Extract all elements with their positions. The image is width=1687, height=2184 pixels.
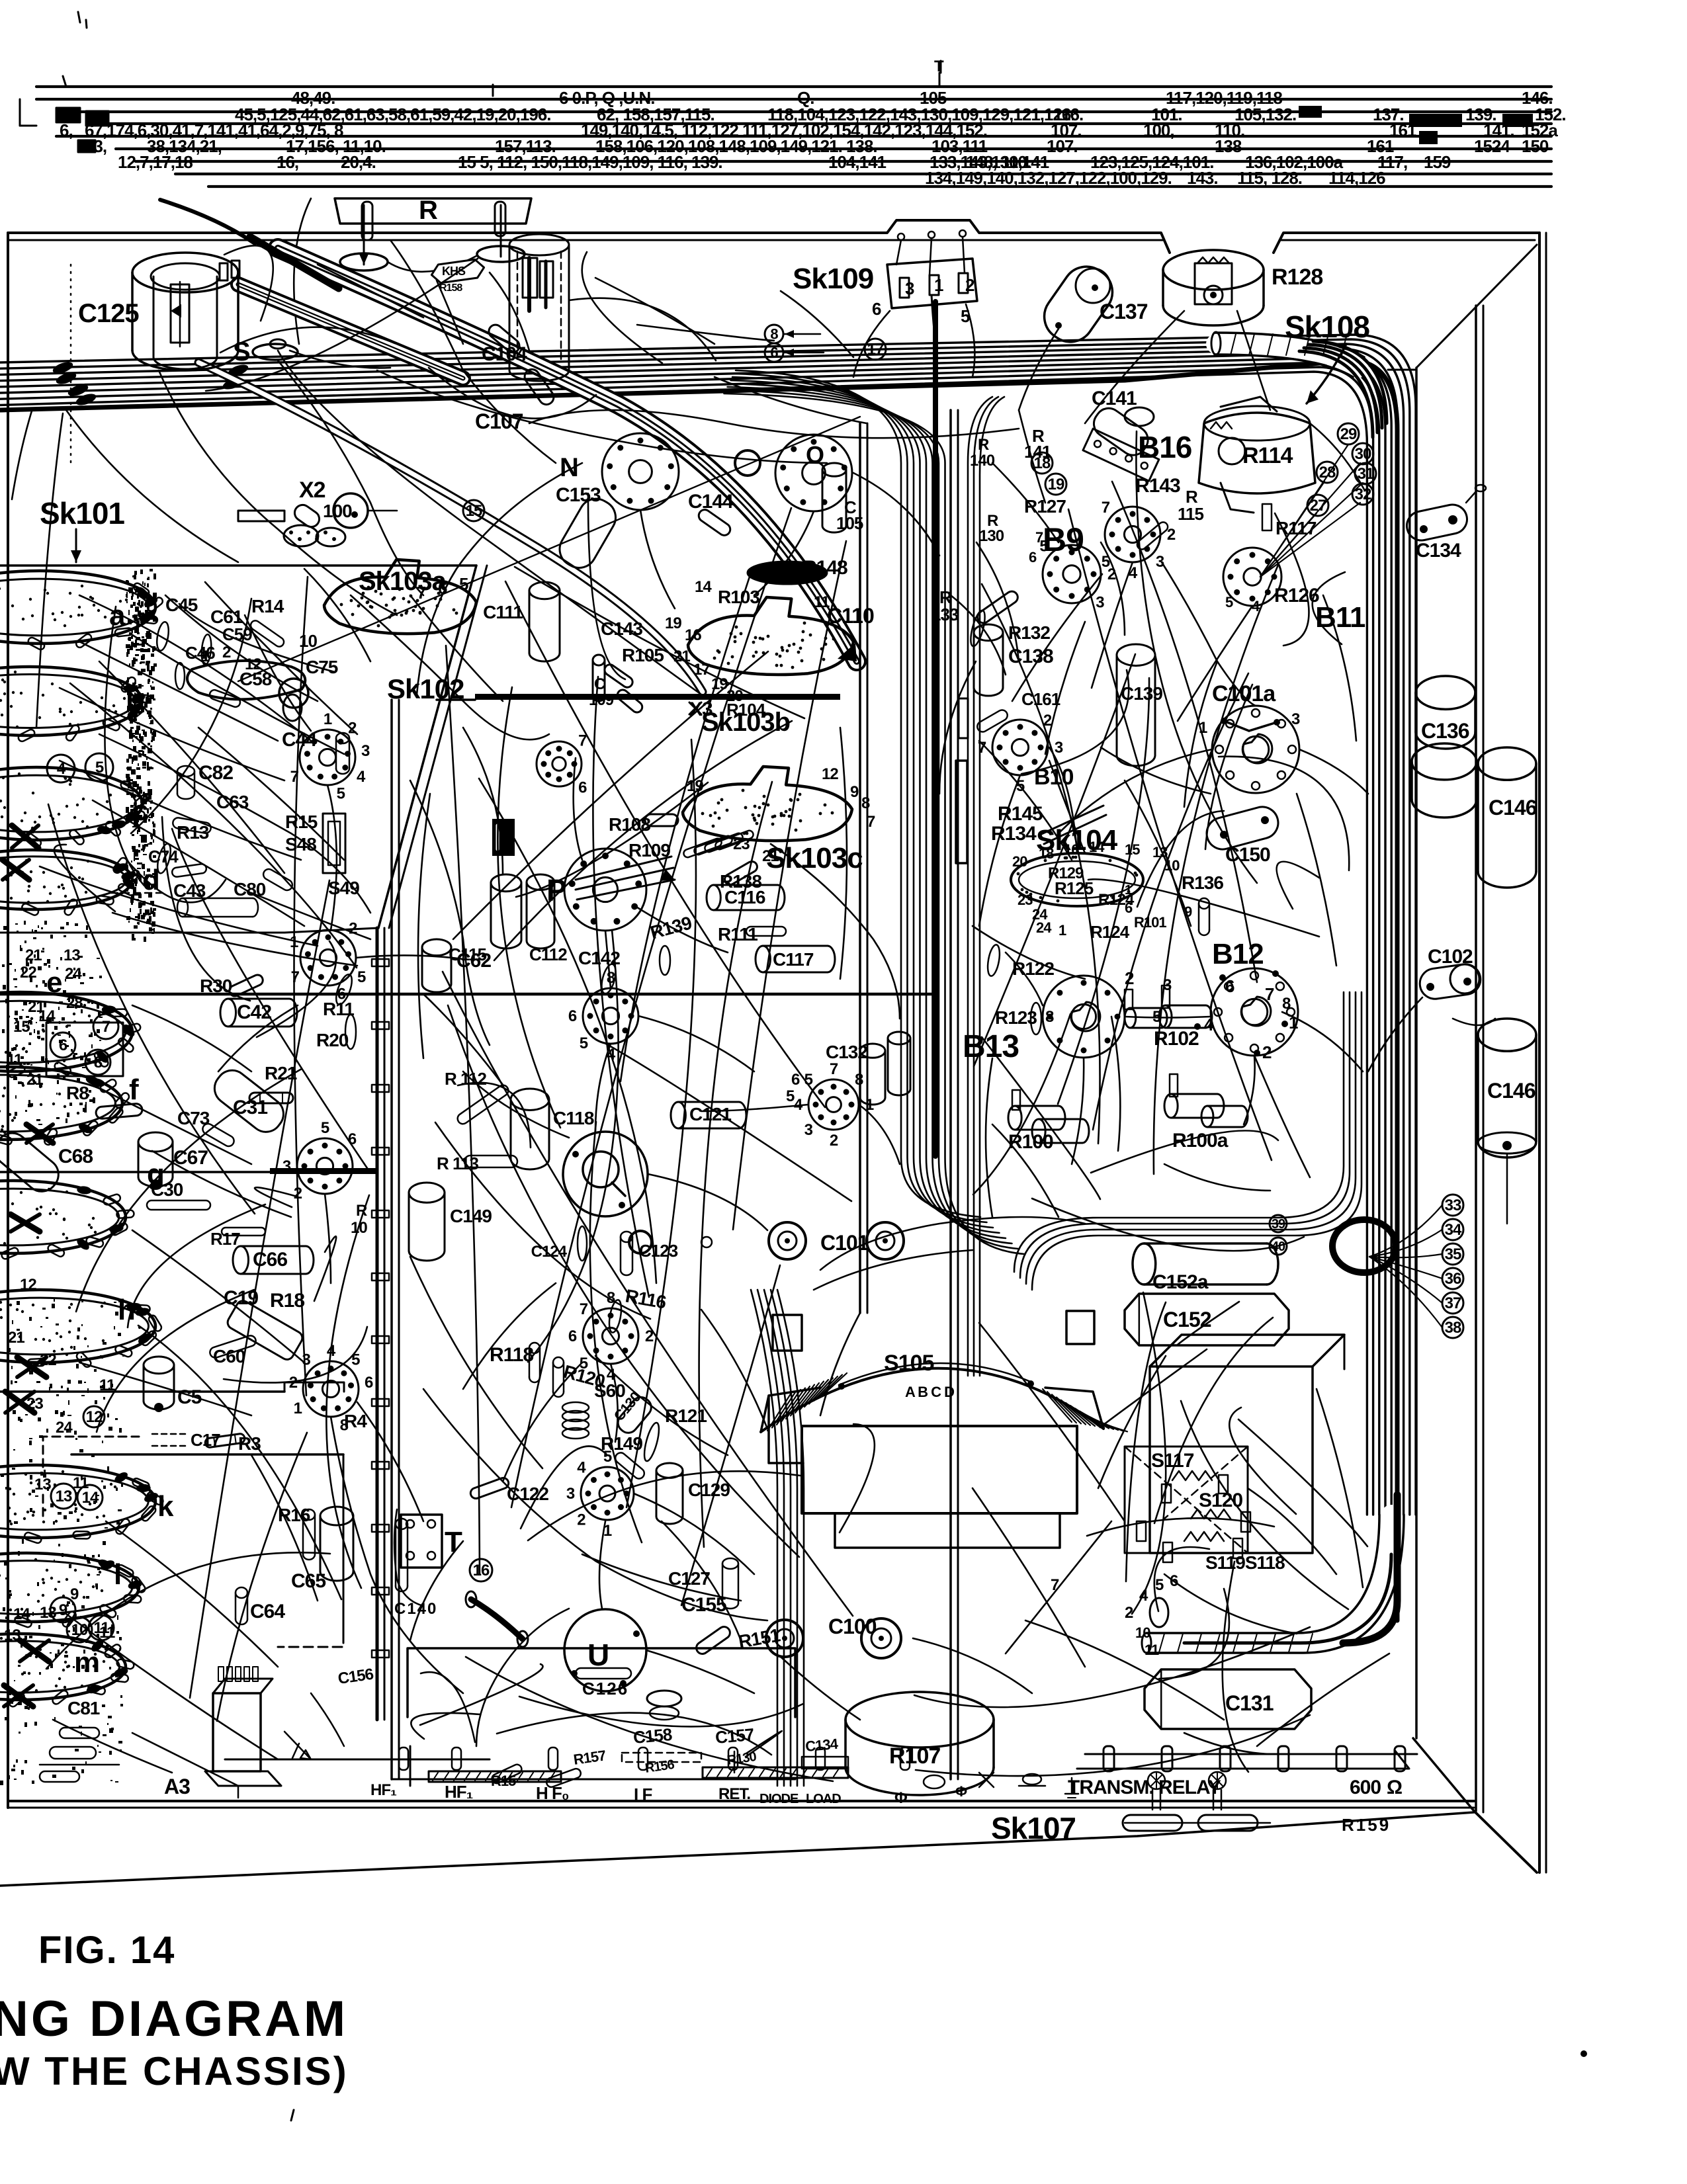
capacitor C107	[522, 366, 556, 407]
socket X small	[284, 525, 318, 546]
capacitor C139	[1117, 644, 1155, 665]
wire	[410, 1541, 463, 1640]
svg-text:R102: R102	[1154, 1028, 1199, 1050]
node ring small	[735, 450, 760, 476]
svg-text:1: 1	[1125, 883, 1132, 898]
capacitor C153cyl	[554, 493, 622, 574]
svg-text:C62: C62	[456, 950, 491, 972]
svg-text:2: 2	[830, 1132, 838, 1150]
svg-text:C134: C134	[1416, 540, 1461, 562]
svg-text:C140: C140	[394, 1600, 437, 1618]
svg-text:11: 11	[7, 1051, 22, 1069]
svg-text:R134: R134	[991, 823, 1037, 845]
switch wafer g	[0, 1181, 126, 1253]
svg-text:3: 3	[282, 1157, 291, 1175]
svg-text:C: C	[594, 675, 605, 693]
panel row divider h	[0, 1390, 284, 1393]
wire	[463, 728, 503, 873]
panel left mid lines	[0, 932, 284, 934]
svg-text:21: 21	[8, 1329, 24, 1347]
wire	[1085, 311, 1184, 423]
wire	[853, 473, 939, 556]
svg-text:Sk107: Sk107	[991, 1811, 1076, 1845]
wire	[325, 1194, 331, 1283]
svg-text:C134: C134	[804, 1736, 839, 1755]
svg-text:C152a: C152a	[1152, 1271, 1209, 1293]
svg-text:19: 19	[1048, 476, 1064, 493]
node dashed box k	[43, 1437, 139, 1519]
wire fan B15	[1260, 444, 1348, 577]
capacitor C126	[576, 1668, 631, 1679]
capacitor C152a	[1133, 1243, 1156, 1284]
svg-text:24: 24	[1036, 919, 1052, 936]
capacitor C67	[138, 1132, 173, 1152]
wire	[611, 1364, 618, 1442]
wire	[66, 1614, 278, 1759]
svg-text:140: 140	[970, 452, 995, 470]
capacitor C42	[220, 999, 236, 1027]
switch wafer C110	[688, 597, 853, 675]
svg-text:7: 7	[1035, 529, 1043, 546]
svg-text:5: 5	[337, 785, 345, 803]
svg-text:143.: 143.	[1187, 168, 1218, 188]
wire	[304, 569, 370, 661]
wire	[635, 906, 728, 952]
wire	[159, 370, 397, 615]
panel right-box left edge	[949, 410, 952, 1779]
svg-text:R105: R105	[622, 645, 664, 665]
wire right compartment fans	[1012, 574, 1102, 701]
svg-text:A B C D: A B C D	[905, 1384, 954, 1400]
switch wafer l	[0, 1553, 139, 1622]
node circled 9-10-11	[50, 1597, 75, 1622]
svg-text:16,: 16,	[277, 152, 298, 172]
wire extra S105 left	[595, 1356, 728, 1455]
capacitor C115	[491, 874, 521, 892]
capacitor C64	[236, 1587, 247, 1598]
wire	[714, 377, 867, 423]
svg-text:Sk103a: Sk103a	[359, 567, 447, 596]
trimmer on C125	[220, 263, 228, 280]
svg-text:150: 150	[1522, 136, 1549, 156]
svg-text:C132: C132	[826, 1042, 867, 1062]
svg-text:134,149,140,132,127,122,100,12: 134,149,140,132,127,122,100,129.	[925, 168, 1172, 188]
wire bent tube	[471, 1599, 523, 1639]
svg-text:C149: C149	[450, 1206, 492, 1226]
node 32	[1352, 483, 1373, 505]
tube socket B7	[583, 1308, 638, 1364]
resistor R100a	[1164, 1094, 1178, 1118]
svg-text:S60: S60	[594, 1380, 625, 1401]
svg-text:2: 2	[1262, 1042, 1272, 1062]
node diode load pins	[924, 1775, 945, 1788]
svg-text:C144: C144	[688, 491, 734, 513]
svg-text:7: 7	[867, 813, 875, 831]
svg-text:R127: R127	[1024, 496, 1066, 517]
wire	[1299, 749, 1368, 794]
svg-text:34: 34	[1445, 1221, 1462, 1239]
chassis bottom edge	[8, 1800, 1474, 1802]
svg-text:105: 105	[836, 513, 863, 533]
svg-text:R18: R18	[270, 1290, 304, 1312]
svg-text:C102: C102	[1428, 946, 1473, 968]
resistor R107	[845, 1692, 994, 1747]
svg-text:36: 36	[1445, 1270, 1461, 1288]
capacitor C130	[614, 1394, 655, 1437]
tube socket R143	[1105, 507, 1160, 562]
svg-text:U: U	[587, 1638, 609, 1672]
wire	[152, 1151, 291, 1217]
svg-text:15: 15	[466, 502, 482, 520]
wire	[93, 1085, 251, 1164]
tube socket N	[602, 433, 679, 510]
wire	[251, 1455, 318, 1601]
wire heavy stub	[160, 200, 255, 243]
tube socket B1	[303, 1361, 359, 1417]
node 30	[1352, 443, 1373, 464]
svg-text:15: 15	[13, 1018, 30, 1036]
connector R bracket	[335, 198, 531, 224]
svg-text:7: 7	[580, 1300, 588, 1318]
tube socket B8	[808, 1079, 859, 1130]
wire	[410, 595, 503, 701]
svg-text:6: 6	[872, 299, 881, 319]
svg-text:R4: R4	[344, 1411, 367, 1431]
svg-text:C66: C66	[253, 1249, 287, 1271]
svg-text:A3: A3	[164, 1775, 190, 1798]
svg-text:12: 12	[822, 765, 838, 783]
wire	[1244, 1056, 1255, 1124]
svg-text:C117: C117	[773, 949, 814, 970]
svg-text:C100: C100	[828, 1615, 877, 1638]
resistor S119-S118 zigzag	[1184, 1532, 1224, 1541]
svg-text:11: 11	[99, 1376, 115, 1394]
svg-text:12,7,17,18: 12,7,17,18	[118, 152, 193, 172]
node 12	[83, 1406, 105, 1427]
node 18	[1031, 452, 1053, 474]
svg-text:6: 6	[365, 1374, 373, 1392]
pot R128	[1163, 250, 1264, 290]
capacitor C101 elcos	[769, 1222, 806, 1259]
svg-text:C123: C123	[639, 1241, 678, 1261]
pot R114	[1199, 413, 1315, 493]
wire	[939, 661, 976, 794]
svg-text:f: f	[129, 1073, 139, 1106]
svg-text:R: R	[419, 196, 438, 225]
wire	[529, 410, 1019, 438]
capacitor C150	[1203, 804, 1282, 853]
wire right compartment loop	[968, 397, 992, 1376]
wire	[79, 1363, 251, 1415]
svg-text:20: 20	[1012, 853, 1027, 870]
chassis left edge	[7, 233, 9, 1808]
svg-text:C136: C136	[1421, 719, 1469, 743]
svg-text:TRANSM. RELAY: TRANSM. RELAY	[1068, 1777, 1221, 1798]
tube socket B14	[581, 1467, 634, 1520]
wire	[463, 1071, 569, 1138]
capacitor C146 upper	[1478, 747, 1536, 780]
wire	[1006, 1521, 1111, 1654]
svg-text:C101: C101	[820, 1231, 869, 1255]
pins S	[1148, 1772, 1165, 1789]
wire	[356, 955, 463, 959]
wire	[132, 1005, 251, 1071]
wire	[132, 1230, 304, 1363]
svg-text:114,126: 114,126	[1328, 168, 1385, 188]
svg-text:m: m	[74, 1646, 99, 1679]
svg-text:1: 1	[294, 1400, 302, 1417]
svg-text:C68: C68	[58, 1146, 93, 1167]
svg-text:6: 6	[1225, 976, 1234, 996]
wire	[1072, 1058, 1084, 1164]
connector KHS	[430, 259, 485, 284]
resistor R159	[1123, 1815, 1182, 1831]
svg-text:4: 4	[577, 1458, 586, 1476]
svg-text:10: 10	[299, 631, 317, 651]
wire	[853, 311, 890, 377]
wire	[640, 510, 675, 609]
svg-text:C75: C75	[306, 657, 338, 677]
capacitor C143	[593, 655, 605, 665]
svg-text:23: 23	[1017, 892, 1033, 908]
svg-text:3: 3	[905, 278, 914, 298]
tube socket B4	[300, 730, 355, 785]
svg-text:6: 6	[578, 778, 587, 796]
svg-text:9: 9	[850, 783, 859, 801]
tube socket B10	[992, 720, 1048, 775]
svg-text:C110: C110	[827, 604, 874, 628]
relay A3	[213, 1693, 261, 1771]
svg-text:R118: R118	[490, 1344, 533, 1366]
tube socket P	[564, 849, 646, 931]
svg-text:29: 29	[1340, 425, 1357, 443]
svg-text:R128: R128	[1272, 265, 1322, 290]
svg-text:FIG. 14: FIG. 14	[38, 1929, 175, 1972]
capacitor C102	[1418, 962, 1483, 1001]
svg-text:2: 2	[349, 920, 357, 938]
wire	[331, 1417, 463, 1693]
chassis top edge	[8, 220, 1170, 253]
wire	[106, 1521, 278, 1667]
svg-text:8: 8	[1045, 1008, 1054, 1026]
svg-text:C146: C146	[1489, 796, 1537, 819]
wire	[754, 511, 814, 595]
svg-text:B9: B9	[1043, 521, 1084, 558]
svg-text:HF₁: HF₁	[370, 1781, 397, 1799]
capacitor C127	[722, 1558, 738, 1569]
wire loom left tails	[12, 409, 32, 499]
svg-text:B12: B12	[1212, 938, 1264, 970]
svg-text:21: 21	[25, 946, 42, 964]
panel bottom-left box	[71, 1453, 343, 1456]
svg-text:RET.: RET.	[718, 1785, 750, 1803]
node bus-right-terminals	[1409, 114, 1462, 127]
wire	[781, 1657, 860, 1720]
svg-text:C74: C74	[148, 847, 179, 866]
wire	[648, 1174, 767, 1230]
svg-text:6: 6	[770, 344, 778, 360]
svg-text:C125: C125	[78, 299, 139, 328]
svg-text:R107: R107	[889, 1743, 940, 1769]
resistor R148	[748, 562, 827, 584]
node R pad right	[477, 246, 525, 262]
svg-text:2: 2	[965, 275, 974, 295]
panel left right edge	[376, 928, 379, 1720]
resistor R102	[1159, 1005, 1172, 1028]
panel mid divider	[0, 993, 933, 996]
svg-text:18: 18	[1039, 845, 1054, 862]
wire	[503, 1363, 582, 1482]
svg-text:S120: S120	[1199, 1490, 1242, 1511]
switch wafer f	[0, 1067, 122, 1140]
switch wafer Sk104	[1011, 853, 1143, 906]
svg-text:C45: C45	[165, 595, 198, 615]
capacitor B8 caps	[888, 1032, 910, 1044]
svg-text:5: 5	[1225, 594, 1233, 610]
capacitor C112	[527, 874, 554, 890]
wire	[423, 994, 503, 1085]
switch wafer e	[0, 992, 132, 1071]
svg-text:4: 4	[1129, 564, 1138, 582]
svg-text:12: 12	[20, 1276, 36, 1294]
svg-text:k: k	[157, 1490, 174, 1523]
tube socket B12	[1211, 968, 1298, 1056]
node 100	[333, 493, 368, 528]
tube socket B3	[300, 930, 356, 986]
connector tag strip	[1083, 429, 1159, 481]
capacitor C5	[144, 1357, 174, 1374]
svg-text:1: 1	[324, 710, 332, 728]
svg-text:6: 6	[568, 1007, 577, 1025]
svg-text:6: 6	[791, 1071, 800, 1089]
wire	[390, 240, 463, 370]
svg-text:Sk108: Sk108	[1285, 310, 1369, 344]
svg-text:C137: C137	[1100, 300, 1148, 323]
node 17	[865, 339, 886, 360]
svg-text:R136: R136	[1182, 872, 1223, 893]
tube socket U	[564, 1609, 646, 1691]
switch wafer left-top2	[187, 661, 305, 699]
svg-text:11: 11	[1145, 1642, 1159, 1658]
capacitor C131	[1145, 1669, 1311, 1729]
tube socket O	[775, 435, 852, 511]
svg-text:4: 4	[1139, 1587, 1148, 1605]
wire	[1049, 747, 1077, 853]
wire	[1019, 410, 1045, 503]
wire	[53, 1720, 172, 1773]
switch wafer d	[0, 850, 132, 909]
svg-text:14: 14	[82, 1489, 99, 1507]
svg-text:13: 13	[56, 1488, 72, 1505]
svg-text:B13: B13	[963, 1029, 1019, 1064]
svg-text:R8: R8	[66, 1083, 89, 1103]
svg-text:5: 5	[961, 306, 970, 326]
wire	[634, 1493, 754, 1574]
svg-text:Ω: Ω	[1387, 1777, 1402, 1798]
node 29	[1338, 423, 1359, 444]
wire	[218, 1005, 298, 1071]
svg-text:Φ: Φ	[894, 1789, 907, 1807]
wire	[1125, 1017, 1211, 1018]
wire	[463, 1283, 556, 1389]
svg-text:21: 21	[26, 1071, 43, 1089]
wire loom bottom L-tube	[1146, 1515, 1391, 1643]
svg-text:R132: R132	[1008, 622, 1050, 643]
capacitor C129	[656, 1463, 683, 1478]
wire	[574, 758, 582, 860]
svg-text:159: 159	[1424, 152, 1451, 172]
svg-text:6: 6	[568, 1327, 577, 1345]
wire	[1162, 562, 1256, 706]
capacitor C149	[409, 1183, 445, 1202]
wire	[1257, 1654, 1389, 1746]
svg-text:39: 39	[1272, 1217, 1285, 1232]
svg-text:S119S118: S119S118	[1205, 1552, 1285, 1573]
svg-text:115: 115	[1178, 504, 1203, 524]
svg-text:I F: I F	[634, 1785, 652, 1804]
svg-text:R158: R158	[439, 282, 462, 294]
svg-text:3: 3	[566, 1485, 575, 1503]
svg-text:R20: R20	[316, 1030, 349, 1050]
wire grommet blob	[1332, 1220, 1396, 1273]
svg-text:115, 128.: 115, 128.	[1237, 168, 1302, 188]
svg-text:5: 5	[95, 759, 104, 777]
svg-text:5: 5	[1155, 1576, 1164, 1594]
svg-text:5: 5	[786, 1087, 795, 1105]
capacitor C138	[974, 624, 1003, 641]
panel left top edge	[0, 564, 476, 567]
node S pad	[253, 344, 298, 360]
panel row divider g	[0, 1171, 377, 1173]
wire Sk108 corner darkening	[1313, 341, 1387, 423]
svg-text:7: 7	[1265, 984, 1274, 1004]
svg-text:35: 35	[1445, 1245, 1461, 1263]
power box S117	[1150, 1366, 1313, 1553]
capacitor bottom-left pills	[50, 1747, 96, 1759]
panel bottom U box	[408, 1648, 795, 1717]
wire	[992, 1124, 1059, 1217]
tube socket B6	[583, 988, 638, 1044]
capacitor C121	[671, 1102, 685, 1128]
svg-text:20,4.: 20,4.	[341, 152, 376, 172]
switch wafer Sk103c-ellipse	[683, 767, 852, 841]
svg-text:14: 14	[13, 1605, 30, 1623]
svg-text:3: 3	[1096, 593, 1104, 611]
node 27	[1307, 495, 1328, 516]
wire	[388, 255, 478, 272]
node rings bottom	[647, 1691, 681, 1706]
switch wafer a	[0, 571, 155, 644]
svg-text:3: 3	[1291, 710, 1300, 728]
svg-text:7: 7	[1102, 499, 1110, 517]
svg-text:C138: C138	[1008, 646, 1053, 667]
svg-text:16: 16	[473, 1562, 490, 1579]
svg-text:NG DIAGRAM: NG DIAGRAM	[0, 1991, 348, 2047]
wire filler	[131, 599, 251, 833]
wire	[1453, 1019, 1495, 1025]
svg-text:2: 2	[348, 720, 357, 737]
svg-text:14: 14	[1089, 839, 1105, 855]
svg-text:3: 3	[1156, 553, 1164, 571]
svg-text:C146: C146	[1487, 1079, 1536, 1103]
wire	[1368, 997, 1422, 1071]
wire extra right compartment	[979, 741, 1072, 860]
wire	[1019, 329, 1059, 410]
node bus-ticks	[492, 85, 494, 96]
svg-text:7: 7	[291, 968, 300, 986]
svg-text:8: 8	[861, 794, 870, 812]
svg-text:R: R	[978, 436, 989, 454]
